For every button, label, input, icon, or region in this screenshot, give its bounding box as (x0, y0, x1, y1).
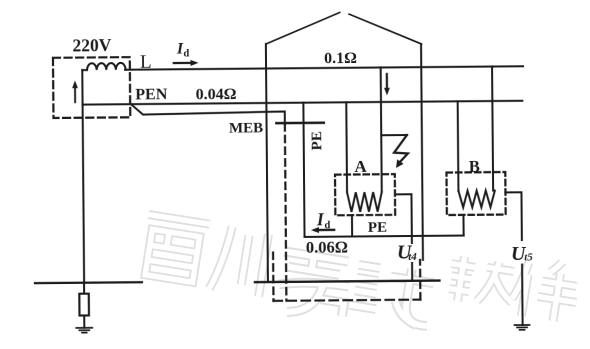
wire L line (125, 66, 523, 69)
appliance A case (dashed) (335, 174, 395, 215)
svg-text:t4: t4 (408, 251, 417, 263)
ground line left (35, 281, 142, 284)
resistor load A (347, 192, 382, 212)
svg-text:0.06Ω: 0.06Ω (306, 238, 348, 257)
svg-text:PE: PE (309, 131, 325, 150)
wire B case tap (505, 192, 522, 325)
wire B PE lead (462, 215, 464, 236)
wire A case tap (395, 194, 412, 280)
wire N drop to appliance B (457, 101, 460, 191)
wire dashed foundation right (419, 260, 422, 300)
svg-text:B: B (469, 157, 480, 176)
house roof (266, 12, 422, 46)
wire dashed foundation left (272, 252, 275, 300)
wire PE bus bottom (305, 236, 464, 237)
ground symbol right (515, 325, 530, 330)
fault lightning arrow (394, 135, 408, 168)
arrow Id right (174, 60, 199, 66)
wire MEB branch (131, 103, 285, 126)
wire lead to earth (83, 283, 85, 328)
resistor earth R box (79, 294, 89, 316)
svg-text:PEN: PEN (135, 86, 168, 103)
transformer source box (dashed) (53, 57, 130, 118)
appliance B case (dashed) (446, 172, 505, 215)
svg-text:MEB: MEB (229, 120, 263, 136)
wire L drop to appliance B (492, 67, 493, 191)
svg-text:A: A (354, 157, 367, 176)
svg-text:d: d (183, 48, 189, 59)
wire L drop to appliance A (381, 68, 382, 192)
MEB bar (276, 122, 323, 125)
arrow source up (72, 80, 78, 102)
house wall left (266, 44, 268, 282)
wire PE drop conductor (303, 103, 304, 237)
label Ut4 (397, 241, 417, 263)
label Id bottom (316, 209, 331, 231)
arrow Id left (311, 227, 334, 233)
wire A PE lead (351, 215, 353, 236)
ground symbol left (76, 328, 92, 333)
wire PEN line (83, 101, 523, 105)
label Ut5 (511, 243, 533, 265)
wire MEB dashed down conductor (285, 124, 287, 300)
svg-text:L: L (140, 52, 152, 73)
wire N drop to appliance A (345, 102, 348, 192)
svg-text:220V: 220V (72, 35, 111, 55)
svg-text:PE: PE (368, 220, 387, 236)
svg-text:0.04Ω: 0.04Ω (196, 86, 237, 103)
svg-text:t5: t5 (524, 251, 533, 263)
ground line mid (255, 281, 439, 283)
main schematic (slight scan skew) (33, 11, 534, 334)
transformer winding T (82, 63, 125, 70)
wire fault stub (381, 134, 407, 136)
arrow fault current down (384, 74, 390, 96)
house wall right (421, 44, 423, 260)
resistor load B (458, 191, 495, 208)
wire dashed foundation bottom (273, 300, 420, 301)
wire transformer neutral down lead (82, 70, 84, 283)
svg-text:0.1Ω: 0.1Ω (324, 50, 357, 67)
